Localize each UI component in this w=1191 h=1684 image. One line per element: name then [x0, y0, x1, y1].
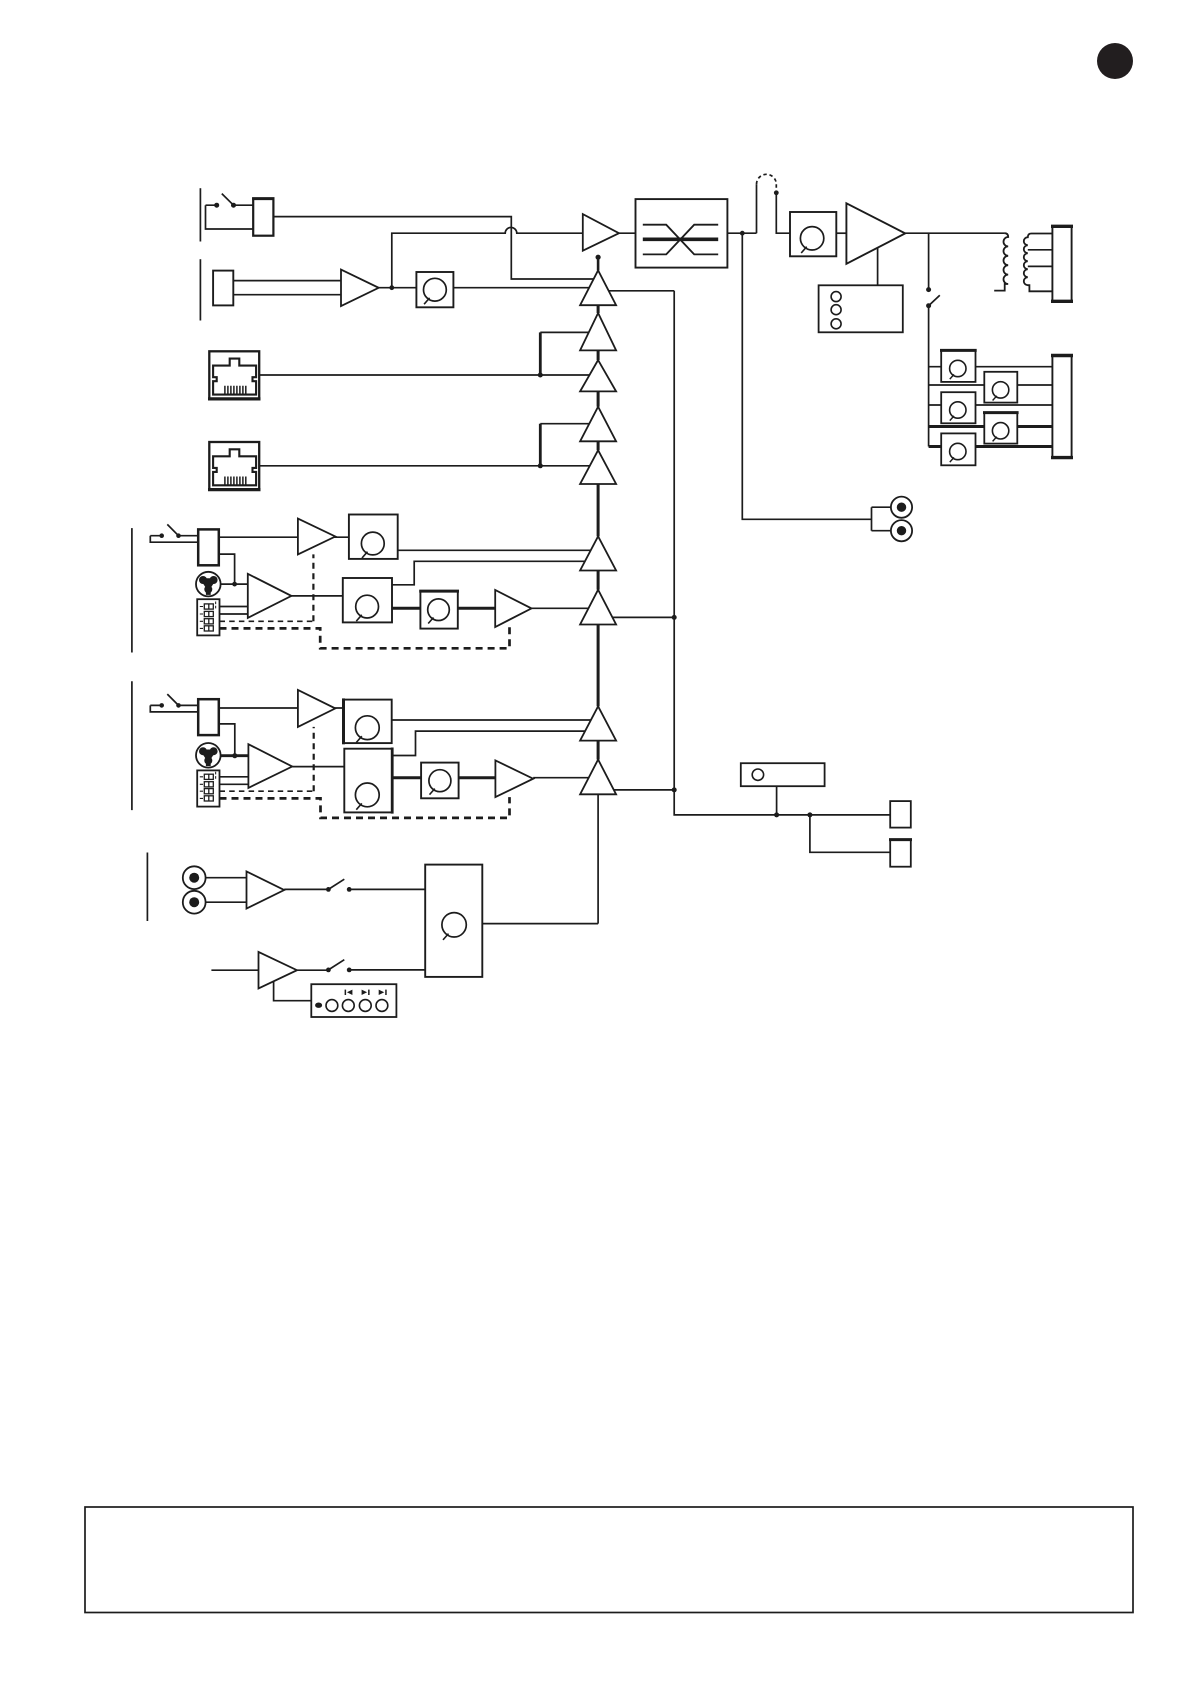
input 1 group border tick — [199, 188, 201, 241]
aux lower input wire — [211, 969, 258, 971]
wire branch up to priority amp A3 with hop — [392, 227, 583, 287]
wire A3 to ducker U1 — [619, 232, 636, 234]
power amp A4 — [846, 203, 905, 263]
bus tail from T9 to master line — [597, 794, 599, 923]
player play icon — [362, 990, 370, 995]
wire balanced pair J2 to A2 — [233, 281, 341, 295]
speaker switch S2 dots — [926, 287, 931, 292]
summing bus vertical right — [674, 291, 890, 815]
transformer T10 secondary coil — [1024, 234, 1053, 292]
bus link T6-T7 — [597, 571, 600, 590]
aux amp A12 — [259, 952, 298, 989]
channel 1 dip dashed control — [220, 620, 314, 622]
channel 1 switch dots — [159, 533, 164, 538]
channel 1 bold dashed comp control — [220, 627, 510, 648]
switch S1 rails — [206, 205, 254, 229]
switch S1 contact dots — [214, 203, 219, 208]
aux amp1 out to switch — [284, 888, 328, 890]
wire VR3 to power amp A4 — [836, 232, 846, 234]
channel 2 bold dashed comp control — [220, 797, 510, 818]
page number dot — [1097, 43, 1133, 79]
channel 1 switch rails — [150, 536, 198, 543]
wire rec out fork — [872, 507, 892, 531]
wire bold riser RJ1 — [539, 332, 542, 375]
summing amp T2 — [580, 313, 616, 350]
channel 1 trim pot VR5 — [420, 591, 457, 629]
aux rca wires — [206, 878, 247, 903]
channel 2 comp amp A10 — [495, 760, 533, 797]
attenuator pot box D — [984, 372, 1017, 403]
bus link T2-T3 — [597, 350, 600, 360]
channel 1 wire J3 to preamp and VR — [219, 536, 390, 538]
channel 2 dip dashed control — [220, 790, 314, 792]
rec out jack 2 — [891, 520, 912, 541]
link right post — [776, 193, 790, 233]
channel 2 mic preamp A9 — [248, 744, 292, 788]
channel 2 dip lines solid — [220, 777, 249, 785]
terminal box 1 — [890, 801, 911, 828]
channel 2 trim pot VR7 — [421, 763, 459, 799]
node dot bus T7 — [672, 615, 677, 620]
channel 1 tone box — [343, 578, 392, 622]
channel 2 preamp2 to tone box — [292, 766, 390, 768]
aux player control link — [274, 981, 312, 1000]
channel 2 VR output to T8 — [392, 719, 598, 721]
master volume VR3 — [790, 212, 836, 256]
wire A4 output to transformer primary — [905, 232, 1004, 234]
buffer amp A2 — [341, 270, 379, 307]
wire attenuator feed vertical — [928, 306, 930, 447]
channel 2 mic wire bold — [221, 754, 249, 757]
channel 1 dip lines solid — [220, 607, 248, 615]
aux switch S4 lever — [328, 960, 344, 970]
aux master box VR8 — [425, 865, 482, 977]
attenuator pot box E — [984, 413, 1017, 444]
channel 1 mic preamp A6 — [248, 574, 292, 618]
bus link T7-T8 — [597, 625, 600, 707]
connector box J1 — [253, 199, 273, 236]
wire A2 output through VR2 to T1 — [379, 287, 598, 289]
RJ45 jack 2 wire to T5 — [259, 465, 598, 467]
wire rec out feed — [742, 233, 871, 519]
summing amp T3 — [580, 360, 616, 391]
player prev icon — [345, 990, 353, 995]
attenuator pot box A — [941, 350, 975, 382]
channel 1 dip switch SW1 — [197, 599, 219, 635]
summing amp T1 — [580, 270, 616, 305]
wire attenuator line 3 — [929, 404, 1053, 406]
transformer T10 primary coil — [994, 233, 1008, 290]
channel 1 comp amp A7 — [495, 590, 531, 627]
player next icon — [379, 990, 387, 995]
volume pot VR2 — [416, 272, 453, 307]
channel 2 switch lever — [167, 694, 178, 705]
input 2 group border tick — [199, 259, 201, 320]
node junction dot after A2 — [389, 285, 394, 290]
channel 1 border tick — [131, 528, 133, 652]
channel 1 input select box J3 — [198, 529, 219, 565]
summing amp T4 — [580, 407, 616, 442]
node dot bus T9 — [672, 787, 677, 792]
wire from J1 to summing bus T1 — [273, 217, 598, 279]
node dot monitor stub — [774, 812, 779, 817]
RJ45 jack 2 — [209, 442, 259, 490]
channel 2 dashed riser to preamp — [313, 727, 315, 791]
speaker terminal block 2 — [1052, 356, 1071, 458]
node dot lower terminal branch — [807, 812, 812, 817]
player usb dot — [315, 1003, 322, 1008]
aux amp2 out to switch — [297, 969, 328, 971]
aux section border tick — [146, 853, 148, 922]
channel 2 tone box — [344, 749, 392, 813]
channel 2 input select box J4 — [198, 699, 219, 735]
summing amp T6 — [580, 536, 616, 570]
speaker terminal block 1 — [1052, 226, 1071, 301]
wire U1 output to link posts — [727, 184, 756, 233]
channel 2 switch dots — [159, 703, 164, 708]
wire attenuator line 5 bold — [929, 445, 1053, 448]
channel 1 bold wire tone to comp — [392, 607, 495, 610]
wire attenuator line 1 — [929, 366, 1053, 368]
aux switch S3 dots — [326, 887, 331, 892]
wire T9 output to bus — [598, 789, 674, 791]
channel 2 direct out step to T8 — [392, 731, 598, 755]
wire branch bracket to T2 — [540, 331, 598, 333]
summing amp T5 — [580, 450, 616, 484]
transformer secondary taps — [1028, 250, 1053, 267]
bus link T1-T2 — [597, 305, 600, 313]
wire T7 output to bus — [598, 616, 674, 618]
channel 1 direct out step to T6 — [392, 561, 598, 585]
channel 2 wire J4 to preamp and VR — [219, 707, 390, 709]
node dot RJ2 branch — [538, 463, 543, 468]
bus link T8-T9 — [597, 741, 600, 760]
connector box J2 — [213, 271, 233, 306]
channel 2 dip switch SW2 — [197, 770, 219, 806]
channel 2 preamp A8 — [298, 690, 335, 727]
channel 2 volume pot VR6 — [344, 700, 392, 744]
node junction dot on U1 output — [740, 231, 745, 236]
priority amp A3 — [583, 214, 619, 251]
bus link T4-T5 — [597, 441, 600, 450]
node dot channel 1 mic junction — [232, 582, 237, 587]
wire T1 output to bus — [598, 290, 674, 292]
wire attenuator line 4 bold — [929, 425, 1053, 428]
attenuator pot box B — [941, 392, 975, 423]
master box output to bus — [482, 923, 598, 925]
summing amp T7 — [580, 590, 616, 625]
channel 1 stub to mic junction — [219, 554, 235, 584]
channel 1 dashed riser to preamp — [312, 554, 314, 621]
channel 1 comp output to T7 — [532, 607, 599, 609]
summing amp T8 — [580, 706, 616, 740]
RJ45 jack 1 wire to T3 — [259, 374, 598, 376]
channel 1 preamp2 to tone box — [291, 595, 390, 597]
channel 1 mic wire — [221, 583, 248, 585]
summing amp T9 — [580, 760, 616, 795]
attenuator pot box C — [941, 433, 975, 465]
wire branch bracket to T4 — [540, 423, 598, 425]
channel 2 comp output to T9 — [533, 777, 598, 779]
channel 2 switch rails — [150, 705, 198, 712]
node dot above T1 — [597, 258, 600, 270]
aux switch S4 dots — [326, 968, 331, 973]
terminal box 2 — [890, 840, 911, 867]
monitor box stub — [776, 786, 778, 815]
channel 2 bold wire tone to comp — [392, 776, 495, 779]
channel 1 switch lever — [167, 524, 178, 535]
ducker matrix U1 — [636, 199, 728, 268]
wire to lower terminal — [810, 815, 890, 852]
RJ45 jack 1 — [209, 351, 259, 399]
aux rca jack 2 — [183, 891, 206, 914]
monitor level box — [741, 763, 825, 786]
speaker switch S2 lever — [929, 295, 940, 306]
node dot on link right post — [774, 190, 779, 195]
aux switch S3 lever — [328, 879, 344, 889]
channel 1 VR output to T6 — [398, 549, 598, 551]
channel 1 mic connector XLR1 — [196, 572, 221, 597]
node dot channel 2 mic junction — [232, 753, 237, 758]
node dot RJ1 branch — [538, 373, 543, 378]
aux wire to master box — [349, 888, 430, 890]
channel 2 mic connector XLR2 — [196, 743, 221, 768]
switch S1 lever — [222, 194, 234, 206]
player control panel — [311, 984, 396, 1017]
aux amp A11 — [247, 871, 285, 908]
channel 1 preamp A5 — [298, 519, 335, 555]
wire attenuator line 2 — [929, 384, 1053, 386]
protector U2 — [819, 285, 903, 332]
bus link T3-T4 — [597, 391, 600, 406]
wire A4 to protector U2 — [877, 248, 879, 286]
channel 1 volume pot VR4 — [349, 515, 398, 559]
link jumper dashed arc — [757, 174, 777, 190]
wire speaker switch branch upper — [928, 233, 930, 289]
bus link T5-T6 — [597, 484, 600, 536]
channel 2 border tick — [131, 681, 133, 810]
rec out jack 1 — [891, 497, 912, 518]
channel 2 stub to mic junction — [219, 724, 235, 756]
wire bold riser RJ2 — [539, 424, 542, 466]
aux wire to master box lower — [349, 969, 430, 971]
aux rca jack 1 — [183, 866, 206, 889]
note box — [85, 1507, 1133, 1613]
